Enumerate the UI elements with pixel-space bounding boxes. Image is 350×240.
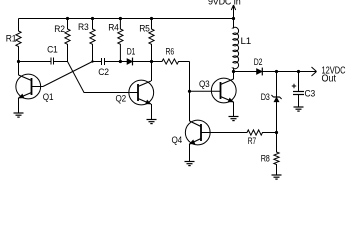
label Q1 <box>43 92 54 102</box>
svg-text:D1: D1 <box>127 46 136 56</box>
svg-text:R3: R3 <box>78 22 89 32</box>
wire R6 vertical to Q4 collector <box>189 62 191 122</box>
wire C3 top <box>298 72 300 92</box>
node dot R3 bottom <box>91 60 93 62</box>
wire Q2 emitter <box>151 104 153 120</box>
label R6 <box>166 47 175 57</box>
node dot Q3 base branch <box>188 90 191 93</box>
node dot L1 bottom <box>232 70 235 73</box>
ground Q1 <box>14 113 24 117</box>
capacitor C2 <box>102 58 105 65</box>
wire C2 to D1 <box>105 61 128 63</box>
node dot R1 bottom <box>17 60 20 63</box>
diode D2 <box>257 68 263 76</box>
label C1 <box>47 45 58 55</box>
inductor L1 <box>233 19 239 72</box>
ground C3 <box>294 107 304 111</box>
svg-text:Q3: Q3 <box>199 79 210 89</box>
node dot R5 bottom <box>150 60 153 63</box>
label D2 <box>254 57 263 67</box>
label Q4 <box>172 135 183 145</box>
node dot rail R4 <box>119 17 122 20</box>
label R2 <box>54 24 65 34</box>
node dot rail R3 <box>91 17 94 20</box>
ground R8 <box>272 175 282 179</box>
label 12VDC <box>322 66 346 77</box>
label R3 <box>78 22 89 32</box>
label D1 <box>127 46 136 56</box>
svg-text:R6: R6 <box>166 47 175 57</box>
wire D1 to R5 node <box>133 61 152 63</box>
label 9VDC In <box>208 0 241 7</box>
ground Q4 <box>185 162 195 166</box>
svg-text:R8: R8 <box>261 154 270 164</box>
wire Q4 emitter <box>189 144 191 162</box>
capacitor C1 <box>51 58 54 65</box>
wire R2 node diagonal to Q2 base <box>68 62 130 93</box>
resistor R8 <box>274 133 279 176</box>
wire D3 top <box>276 72 278 98</box>
wire Q4 base lead <box>201 132 247 134</box>
label C3 <box>305 89 316 99</box>
wire R1 to C1 row <box>19 61 52 63</box>
wire D3 to R7 node <box>276 102 278 133</box>
svg-text:R4: R4 <box>108 23 119 33</box>
resistor R3 <box>90 19 95 62</box>
svg-text:R1: R1 <box>6 33 17 43</box>
wire L1 to D2 <box>234 71 257 73</box>
wire Q1 base diagonal to R3 node <box>43 62 93 87</box>
svg-text:R2: R2 <box>54 24 65 34</box>
transistor Q1 <box>16 74 41 99</box>
wire Q1 base lead <box>32 86 44 88</box>
wire R3 node to C2 <box>93 61 102 63</box>
svg-text:D3: D3 <box>261 92 270 102</box>
node dot rail R5 <box>150 17 153 20</box>
wire Q1 collector <box>18 62 20 76</box>
node dot rail L1 <box>232 17 235 20</box>
diode D1 <box>127 58 133 66</box>
svg-text:9VDC In: 9VDC In <box>208 0 241 7</box>
label L1 <box>241 36 252 46</box>
node dot D3 branch <box>275 70 278 73</box>
capacitor C3 <box>292 84 304 95</box>
label R5 <box>139 23 150 33</box>
power 9VDC In arrow <box>231 5 235 19</box>
label D3 <box>261 92 270 102</box>
label Q3 <box>199 79 210 89</box>
svg-text:Q1: Q1 <box>43 92 54 102</box>
ground Q3 <box>229 117 239 121</box>
resistor R2 <box>65 19 70 62</box>
wire Q2 base lead <box>130 92 138 94</box>
label Q2 <box>116 94 127 104</box>
svg-text:D2: D2 <box>254 57 263 67</box>
resistor R4 <box>118 19 123 62</box>
transistor Q3 <box>211 78 236 103</box>
node dot C3 branch <box>297 70 300 73</box>
label R1 <box>6 33 17 43</box>
wire Q3 emitter <box>233 102 235 117</box>
node dot R4 bottom <box>119 60 122 63</box>
resistor R5 <box>149 19 154 81</box>
resistor R1 <box>16 19 21 62</box>
svg-text:Q4: Q4 <box>172 135 183 145</box>
svg-text:C3: C3 <box>305 89 316 99</box>
resistor R6 <box>152 59 190 64</box>
node dot R7 R8 D3 <box>275 131 278 134</box>
node dot rail R2 <box>66 17 69 20</box>
wire C1 to R2 node <box>54 61 68 63</box>
resistor R7 <box>241 130 277 135</box>
diode D3 zener <box>271 95 281 102</box>
svg-text:C1: C1 <box>47 45 58 55</box>
ground Q2 <box>147 120 157 124</box>
wire Q2 collector <box>151 62 153 82</box>
label R8 <box>261 154 270 164</box>
wire Q1 emitter <box>18 98 20 113</box>
label Out <box>322 74 337 85</box>
transistor Q2 <box>129 80 154 105</box>
wire Q3 base <box>190 90 221 92</box>
svg-text:R5: R5 <box>139 23 150 33</box>
svg-text:C2: C2 <box>98 67 109 77</box>
label R4 <box>108 23 119 33</box>
wire C3 bottom <box>298 95 300 108</box>
svg-text:Q2: Q2 <box>116 94 127 104</box>
wire Q3 collector <box>233 72 235 80</box>
label C2 <box>98 67 109 77</box>
svg-text:Out: Out <box>322 74 337 85</box>
wire top rail <box>19 18 234 20</box>
wire D2 to output arrow <box>262 67 316 76</box>
transistor Q4 <box>185 120 210 145</box>
label R7 <box>248 136 257 146</box>
svg-text:R7: R7 <box>248 136 257 146</box>
svg-text:L1: L1 <box>241 36 252 46</box>
